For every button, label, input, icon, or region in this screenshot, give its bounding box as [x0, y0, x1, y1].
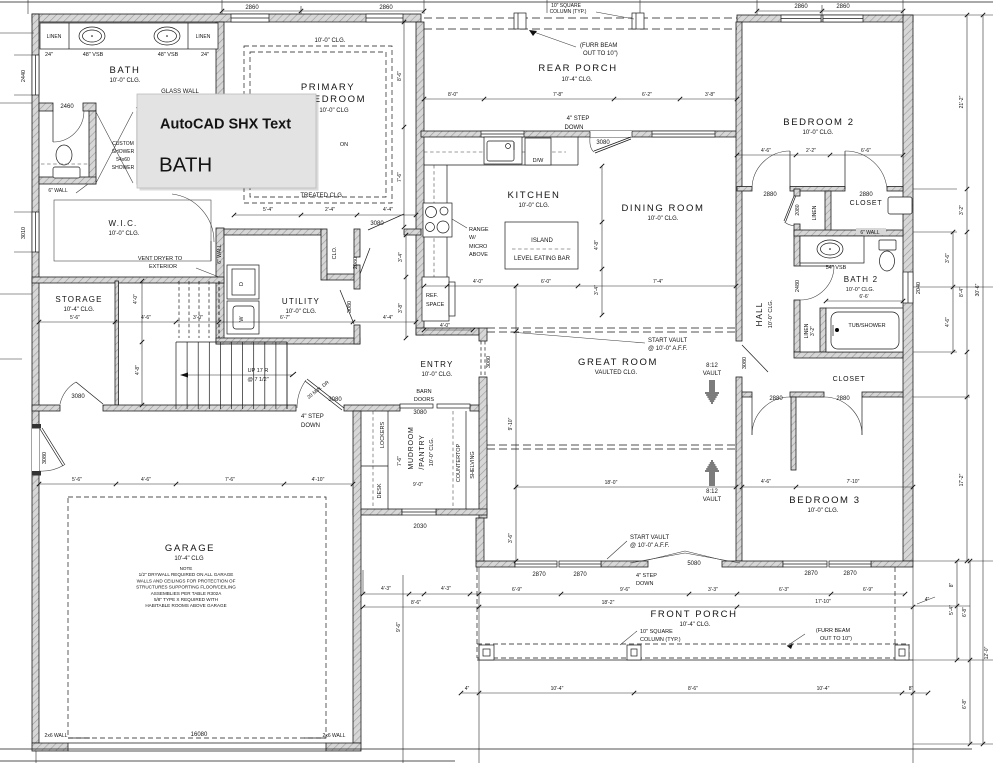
svg-text:4" STEP: 4" STEP	[567, 116, 590, 122]
right ext y15	[913, 14, 993, 16]
wall garage east wall	[353, 411, 361, 743]
wall bedroom2 south wall b	[790, 187, 845, 192]
window 4060	[652, 131, 715, 137]
start vault leader lower	[607, 541, 627, 559]
svg-text:W: W	[239, 316, 245, 322]
svg-text:DINING ROOM: DINING ROOM	[621, 203, 704, 214]
wall mudroom south wall w	[353, 509, 402, 515]
svg-text:4'-0": 4'-0"	[473, 279, 483, 285]
svg-text:DOORS: DOORS	[414, 397, 435, 403]
svg-text:3'-8": 3'-8"	[398, 303, 404, 313]
wall entry east wall lower	[479, 377, 487, 518]
window 2870 bedroom3 b	[829, 561, 871, 567]
svg-text:9'-0": 9'-0"	[413, 482, 423, 488]
svg-text:6" WALL: 6" WALL	[48, 188, 68, 194]
svg-text:LINEN: LINEN	[47, 34, 62, 40]
wall hall east wall top post	[794, 189, 800, 196]
svg-text:LINEN: LINEN	[196, 34, 211, 40]
wall garage south wall w corner	[32, 743, 68, 751]
svg-text:10'-0" CLG.: 10'-0" CLG.	[422, 372, 453, 378]
start vault dashed line lower	[487, 444, 736, 446]
svg-text:ENTRY: ENTRY	[421, 360, 454, 369]
svg-text:3080: 3080	[328, 397, 342, 403]
right ext y352	[913, 351, 957, 353]
svg-text:GREAT ROOM: GREAT ROOM	[578, 357, 658, 368]
washer dryer boxes	[227, 265, 259, 299]
svg-text:5'-6": 5'-6"	[72, 477, 82, 483]
svg-text:10'-4" CLG.: 10'-4" CLG.	[680, 622, 711, 628]
left ext line 1	[0, 102, 32, 104]
svg-text:SHELVING: SHELVING	[470, 451, 476, 478]
door rear porch 3080 opening	[590, 131, 632, 137]
svg-text:8:12: 8:12	[706, 363, 718, 369]
door hall-great room leaf	[742, 345, 768, 372]
svg-text:UP 17 R: UP 17 R	[248, 368, 269, 374]
right ext y397	[913, 396, 970, 398]
wall wic east below door	[216, 228, 224, 283]
svg-text:DOWN: DOWN	[565, 125, 584, 131]
column leader	[596, 12, 634, 19]
wall bedroom2 south wall c	[887, 187, 903, 192]
ext line x913	[912, 567, 914, 763]
door rear porch 3080 leaf	[594, 137, 631, 151]
svg-text:@ 10'-0" A.F.F.: @ 10'-0" A.F.F.	[648, 346, 688, 352]
svg-text:GARAGE: GARAGE	[165, 543, 215, 554]
wall bath hall wall stub w	[39, 103, 53, 111]
svg-text:8'-6": 8'-6"	[411, 600, 421, 606]
left ext line 3	[0, 358, 22, 360]
svg-text:4": 4"	[465, 686, 470, 692]
left ext line 2	[0, 293, 32, 295]
svg-text:COLUMN (TYP.): COLUMN (TYP.)	[550, 9, 587, 15]
svg-text:10" SQUARE: 10" SQUARE	[640, 629, 673, 635]
right dim 6-8	[969, 561, 971, 744]
svg-text:3'-6": 3'-6"	[508, 533, 514, 543]
svg-text:4'-6": 4'-6"	[945, 317, 951, 327]
svg-text:9'-6": 9'-6"	[620, 587, 630, 593]
wall front wall mid2	[722, 561, 783, 567]
sink oval left	[79, 27, 105, 45]
svg-text:VENT DRYER TO: VENT DRYER TO	[138, 256, 183, 262]
wall front wall w of windows	[476, 561, 515, 567]
mudroom desk divider	[361, 465, 388, 467]
svg-text:VAULTED CLG.: VAULTED CLG.	[595, 370, 638, 376]
svg-text:2880: 2880	[859, 192, 873, 198]
svg-text:8'-4": 8'-4"	[959, 287, 965, 297]
svg-text:(FURR BEAM: (FURR BEAM	[580, 43, 617, 49]
mudroom lockers dashed	[372, 411, 374, 509]
svg-text:2880: 2880	[836, 396, 850, 402]
window 2870 great room b	[559, 561, 601, 567]
svg-text:STRUCTURES SUPPORTING FLOOR/CE: STRUCTURES SUPPORTING FLOOR/CEILING	[136, 585, 236, 590]
svg-text:4'-6": 4'-6"	[141, 477, 151, 483]
svg-text:2870: 2870	[843, 571, 857, 577]
wall stair hall south wall d	[470, 405, 487, 411]
svg-text:8:12: 8:12	[706, 489, 718, 495]
svg-text:8'-6": 8'-6"	[688, 686, 698, 692]
svg-text:REF.: REF.	[426, 293, 438, 299]
svg-text:SHOWER: SHOWER	[112, 149, 135, 155]
svg-text:24": 24"	[201, 52, 209, 58]
svg-text:3'-3": 3'-3"	[708, 587, 718, 593]
door closet2 leaf and swing	[861, 397, 863, 435]
stairs direction arrow	[184, 374, 293, 376]
wall kitchen west / primary east	[416, 22, 424, 335]
wall stair hall south wall a	[32, 405, 60, 411]
shower glass diagonals	[96, 112, 133, 183]
kitchen sink	[484, 137, 522, 164]
window 2870 great room a	[515, 561, 557, 567]
dishwasher	[525, 138, 551, 165]
furr beam leader	[531, 31, 576, 47]
svg-text:PRIMARY: PRIMARY	[301, 82, 355, 93]
svg-text:10'-4" CLG.: 10'-4" CLG.	[562, 77, 593, 83]
svg-text:6'-3": 6'-3"	[779, 587, 789, 593]
svg-text:10'-0" CLG.: 10'-0" CLG.	[286, 309, 317, 315]
garage door opening lines	[68, 742, 326, 744]
svg-text:EXTERIOR: EXTERIOR	[149, 264, 177, 270]
svg-text:2860: 2860	[379, 5, 393, 11]
door bedroom3 leaf and swing	[751, 397, 753, 435]
window 2860 bedroom2 a	[781, 15, 821, 22]
svg-text:CLO.: CLO.	[332, 246, 338, 259]
door garage service 3080 leaf and swing	[40, 429, 63, 466]
wall mudroom south wall e	[436, 509, 487, 515]
svg-text:2030: 2030	[413, 524, 427, 530]
wall toilet room south wall	[39, 177, 96, 184]
svg-text:16080: 16080	[191, 732, 208, 738]
svg-text:4'-8": 4'-8"	[594, 240, 600, 250]
window 3010 left wall	[32, 212, 39, 252]
svg-text:BATH 2: BATH 2	[844, 275, 879, 284]
svg-text:10'-4" CLG: 10'-4" CLG	[174, 556, 204, 562]
svg-text:10'-0" CLG.: 10'-0" CLG.	[519, 203, 550, 209]
svg-text:ISLAND: ISLAND	[531, 238, 553, 244]
svg-text:4'-6": 4'-6"	[761, 148, 771, 154]
svg-text:2860: 2860	[245, 5, 259, 11]
svg-text:8'-0": 8'-0"	[448, 92, 458, 98]
bath2 vanity	[800, 236, 864, 263]
wall bedroom3 closet wall	[791, 397, 796, 470]
svg-text:17'-2": 17'-2"	[959, 473, 965, 486]
svg-text:3080: 3080	[347, 301, 353, 313]
svg-text:6'-0": 6'-0"	[541, 279, 551, 285]
range	[423, 203, 452, 237]
svg-text:3080: 3080	[42, 452, 48, 464]
mudroom shelving line	[465, 411, 467, 509]
svg-text:2880: 2880	[769, 396, 783, 402]
svg-text:2480: 2480	[795, 280, 801, 292]
start vault dashed line upper	[487, 327, 736, 329]
wall clo east wall	[354, 229, 360, 257]
top left ext vertical	[27, 0, 29, 14]
barn doors tracks	[400, 404, 433, 408]
svg-text:4'-3": 4'-3"	[441, 586, 451, 592]
left ext line top	[0, 32, 34, 34]
svg-text:MICRO: MICRO	[469, 244, 488, 250]
bath2 niche	[888, 197, 912, 214]
svg-text:54" VSB: 54" VSB	[826, 265, 847, 271]
garage service door opening	[32, 428, 39, 471]
vent dryer leader	[196, 268, 219, 277]
door bath2 leaf and swing	[800, 265, 834, 267]
wall entry north wall	[416, 328, 479, 335]
door garage 20min leaf and swing	[307, 379, 344, 408]
svg-text:UTILITY: UTILITY	[282, 297, 320, 306]
svg-text:TREATED CLG.: TREATED CLG.	[300, 193, 344, 199]
svg-text:VAULT: VAULT	[703, 371, 722, 377]
front porch column c	[895, 645, 909, 660]
svg-text:5'-6": 5'-6"	[70, 315, 80, 321]
svg-text:6'-9": 6'-9"	[863, 587, 873, 593]
right dim chain outer	[966, 15, 968, 561]
svg-text:7'-10": 7'-10"	[847, 479, 860, 485]
right ext y660	[913, 659, 993, 661]
ext line x403	[402, 575, 404, 763]
range leader	[452, 219, 467, 228]
door linen1 2080 leaf and swing	[784, 196, 794, 221]
svg-text:2870: 2870	[804, 571, 818, 577]
wall closet2 south wall c	[862, 392, 903, 397]
svg-text:2080: 2080	[795, 204, 801, 215]
wall primary south / utility north e	[404, 229, 421, 235]
svg-text:2'-2": 2'-2"	[806, 148, 816, 154]
right overall dim	[982, 15, 984, 744]
window 2040 right wall	[903, 272, 913, 303]
wall linen2 east wall	[820, 308, 826, 352]
svg-text:CLOSET: CLOSET	[833, 376, 866, 383]
front porch column b	[627, 645, 641, 660]
svg-text:OUT TO 10"): OUT TO 10")	[820, 636, 852, 642]
sheet bottom line 2	[0, 760, 455, 762]
wall stair hall south wall b	[103, 405, 296, 411]
svg-text:10'-0" CLG.: 10'-0" CLG.	[109, 231, 140, 237]
svg-text:9'-6": 9'-6"	[396, 622, 402, 632]
svg-text:4'-4": 4'-4"	[383, 315, 393, 321]
svg-text:6'-2": 6'-2"	[642, 92, 652, 98]
right ext y189	[913, 188, 957, 190]
svg-text:COUNTERTOP: COUNTERTOP	[456, 444, 462, 483]
svg-text:BARN: BARN	[416, 389, 431, 395]
svg-text:10'-4" CLG.: 10'-4" CLG.	[64, 307, 95, 313]
svg-text:10'-0" CLG.: 10'-0" CLG.	[648, 216, 679, 222]
svg-text:7'-6": 7'-6"	[397, 172, 403, 182]
svg-text:5/8" TYPE X REQUIRED WITH: 5/8" TYPE X REQUIRED WITH	[154, 597, 218, 602]
svg-text:/PANTRY: /PANTRY	[419, 434, 426, 469]
front porch dashed outline	[476, 567, 478, 658]
svg-text:54x60: 54x60	[116, 157, 130, 163]
svg-text:6'-6": 6'-6"	[861, 148, 871, 154]
svg-text:48" VSB: 48" VSB	[83, 52, 104, 58]
svg-text:4'-0": 4'-0"	[440, 323, 450, 329]
wall front wall e	[871, 561, 913, 567]
right ext y287	[913, 286, 993, 288]
svg-text:4'-3": 4'-3"	[381, 586, 391, 592]
svg-text:6'-6': 6'-6'	[859, 294, 868, 300]
vault arrow lower	[705, 461, 719, 485]
svg-text:W.I.C.: W.I.C.	[109, 219, 138, 228]
svg-text:10'-0" CLG.: 10'-0" CLG.	[808, 508, 839, 514]
island	[505, 222, 578, 269]
bath vanity counter	[40, 23, 218, 49]
svg-text:BEDROOM 3: BEDROOM 3	[789, 495, 860, 506]
svg-text:NOTE: NOTE	[180, 566, 193, 571]
svg-text:4'-8": 4'-8"	[135, 365, 141, 375]
svg-text:AutoCAD SHX Text: AutoCAD SHX Text	[160, 117, 291, 133]
wall stair hall south wall c	[344, 405, 400, 411]
wall garage south wall e corner	[326, 743, 361, 751]
svg-text:4'-6": 4'-6"	[141, 315, 151, 321]
door utility 3080 top leaf	[368, 214, 404, 230]
svg-text:3080: 3080	[370, 221, 384, 227]
wall clo south wall	[327, 274, 360, 280]
door bedroom2 leaf and swing	[789, 151, 791, 189]
svg-text:MUDROOM: MUDROOM	[408, 426, 415, 469]
ref space	[422, 277, 449, 321]
svg-text:18'-2": 18'-2"	[602, 600, 615, 606]
window 2860 bedroom2 b	[823, 15, 863, 22]
door 2460 bath hall leaf and swing	[52, 111, 54, 142]
garage door sill marks	[68, 737, 90, 739]
wall central (great room / bed wing)	[736, 22, 742, 341]
svg-text:10'-0" CLG: 10'-0" CLG	[319, 108, 349, 114]
sheet bottom line 1	[0, 748, 972, 750]
right ext y561	[913, 560, 993, 562]
svg-text:4'-10": 4'-10"	[312, 477, 325, 483]
svg-text:2880: 2880	[763, 192, 777, 198]
svg-text:RANGE: RANGE	[469, 227, 489, 233]
svg-text:BATH: BATH	[159, 154, 212, 177]
svg-text:VAULT: VAULT	[703, 497, 722, 503]
wall exterior left	[32, 14, 39, 743]
svg-text:10'-0" CLG.: 10'-0" CLG.	[768, 299, 774, 328]
wall closet2 south wall b	[790, 392, 824, 397]
wall entry east wall upper	[479, 328, 487, 341]
wall exterior top (bath/primary)	[32, 14, 421, 22]
mudroom lockers line	[387, 411, 389, 509]
svg-text:3'-2": 3'-2"	[810, 326, 816, 336]
svg-text:OUT TO 10"): OUT TO 10")	[583, 51, 618, 57]
svg-text:ABOVE: ABOVE	[469, 252, 488, 258]
svg-text:DOWN: DOWN	[636, 581, 653, 587]
front door 5080 peak lines	[648, 551, 685, 560]
wall exterior right	[903, 15, 913, 561]
toilet 1	[56, 145, 72, 165]
front porch slab edge	[477, 659, 913, 661]
svg-text:18'-0": 18'-0"	[605, 480, 618, 486]
svg-text:8": 8"	[949, 583, 955, 588]
garage door dashed setback rect	[68, 497, 326, 738]
wall shower west wall	[89, 111, 96, 184]
svg-text:6'-9": 6'-9"	[512, 587, 522, 593]
svg-text:21'-2": 21'-2"	[959, 95, 965, 108]
wall primary south / utility north w	[224, 229, 321, 235]
right ext y744	[913, 743, 993, 745]
svg-text:2860: 2860	[836, 4, 850, 10]
svg-text:LEVEL EATING BAR: LEVEL EATING BAR	[514, 256, 571, 262]
svg-text:5080: 5080	[687, 561, 701, 567]
mudroom countertop dashed	[452, 411, 454, 509]
tooltip AutoCAD SHX Text	[137, 94, 319, 191]
svg-text:ASSEMBLIES PER TABLE R302A: ASSEMBLIES PER TABLE R302A	[151, 591, 222, 596]
svg-text:4" STEP: 4" STEP	[636, 573, 657, 579]
right ext y232	[913, 231, 957, 233]
svg-text:7'-4": 7'-4"	[653, 279, 663, 285]
svg-text:3'-0": 3'-0"	[193, 315, 203, 321]
svg-text:D: D	[239, 282, 245, 286]
window 2860 top left	[231, 14, 269, 22]
ext line x36	[35, 751, 37, 763]
wall central lower	[736, 377, 742, 561]
svg-text:BATH: BATH	[109, 65, 140, 76]
svg-text:2x6 WALL: 2x6 WALL	[323, 733, 346, 739]
svg-text:LINEN: LINEN	[812, 205, 818, 220]
svg-text:3'-8": 3'-8"	[705, 92, 715, 98]
svg-text:2870: 2870	[573, 572, 587, 578]
door wic-primary leaf and swing	[210, 241, 212, 261]
wall storage east wall	[115, 281, 119, 405]
wall stoop west wall	[476, 518, 484, 561]
svg-text:6" WALL: 6" WALL	[860, 230, 880, 236]
svg-text:SHOWER: SHOWER	[112, 165, 135, 171]
svg-text:12'-0": 12'-0"	[984, 646, 990, 659]
wall linen1 east wall	[825, 191, 831, 236]
svg-text:3'-4": 3'-4"	[594, 285, 600, 295]
svg-text:7'-8": 7'-8"	[553, 92, 563, 98]
svg-text:5'-4": 5'-4"	[263, 207, 273, 213]
svg-text:1/2" DRYWALL REQUIRED ON ALL G: 1/2" DRYWALL REQUIRED ON ALL GARAGE	[139, 572, 234, 577]
svg-text:BEDROOM 2: BEDROOM 2	[783, 117, 854, 128]
svg-text:6'-8": 6'-8"	[962, 607, 968, 617]
svg-text:4" STEP: 4" STEP	[301, 414, 324, 420]
right dim chain inner	[952, 232, 954, 352]
svg-text:3'-4": 3'-4"	[398, 252, 404, 262]
svg-text:REAR PORCH: REAR PORCH	[538, 63, 617, 74]
svg-text:WALLS AND CEILINGS FOR PROTECT: WALLS AND CEILINGS FOR PROTECTION OF	[137, 578, 236, 583]
svg-text:3080: 3080	[596, 140, 610, 146]
svg-text:7'-6": 7'-6"	[397, 456, 403, 466]
svg-text:START VAULT: START VAULT	[630, 535, 669, 541]
primary tray ceiling dashed rects	[244, 46, 392, 203]
wall hall east wall lower	[794, 300, 800, 352]
svg-text:9'-10": 9'-10"	[508, 417, 514, 430]
svg-text:10'-4": 10'-4"	[817, 686, 830, 692]
sheet top border line	[0, 1, 993, 3]
svg-text:TUB/SHOWER: TUB/SHOWER	[848, 323, 885, 329]
column ext line b	[639, 0, 641, 13]
stairs lower flight treads	[175, 342, 177, 409]
wic dashed shelf outline	[54, 200, 211, 261]
svg-text:4'-0": 4'-0"	[133, 294, 139, 304]
svg-text:2870: 2870	[532, 572, 546, 578]
svg-text:4'-6": 4'-6"	[761, 479, 771, 485]
wall bedroom2 top	[737, 15, 913, 22]
svg-text:@ 10'-0" A.F.F.: @ 10'-0" A.F.F.	[630, 543, 670, 549]
opening entry-great room dashed	[480, 341, 482, 377]
window 2440 left wall	[32, 55, 39, 95]
svg-text:HALL: HALL	[755, 302, 764, 327]
door clo 2080 leaf	[360, 248, 370, 274]
column ext line a	[546, 0, 548, 13]
window 2030 mudroom south	[402, 509, 436, 515]
svg-text:2080: 2080	[353, 257, 359, 269]
rear porch column b	[632, 13, 644, 29]
svg-text:10'-0" CLG.: 10'-0" CLG.	[846, 287, 875, 293]
svg-text:2040: 2040	[916, 282, 922, 294]
svg-text:2'-4": 2'-4"	[325, 207, 335, 213]
svg-text:3010: 3010	[21, 227, 27, 239]
svg-text:3080: 3080	[71, 394, 85, 400]
